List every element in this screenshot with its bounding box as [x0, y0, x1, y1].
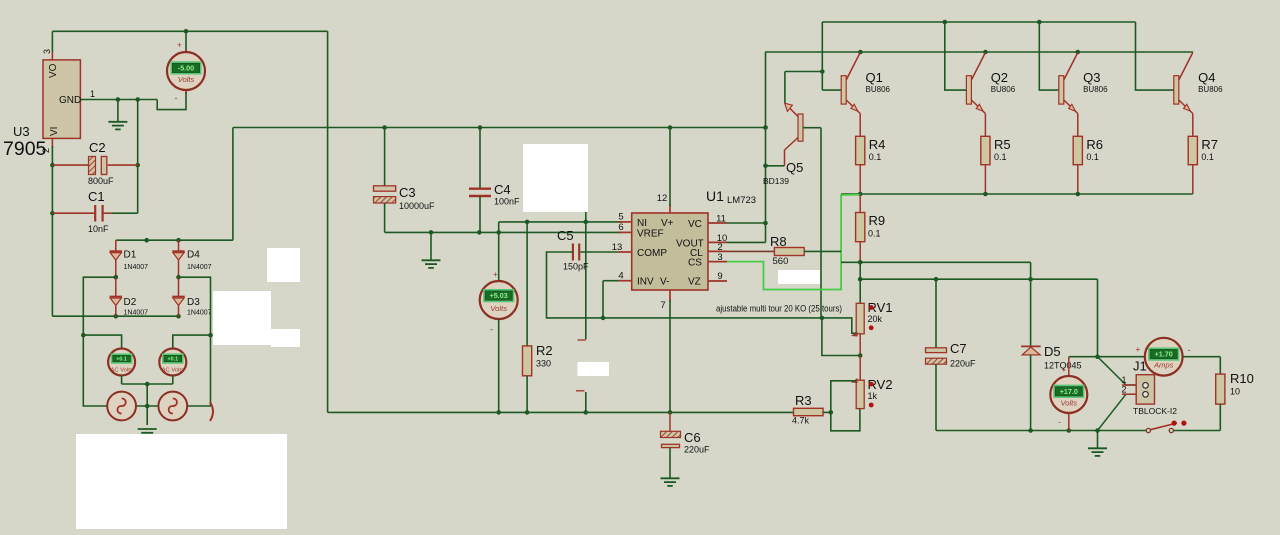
- svg-text:6: 6: [618, 222, 623, 233]
- svg-text:D4: D4: [187, 250, 200, 261]
- svg-text:+: +: [1136, 345, 1141, 354]
- svg-text:800uF: 800uF: [88, 176, 114, 186]
- svg-text:LM723: LM723: [727, 195, 756, 206]
- svg-text:0.1: 0.1: [994, 152, 1007, 162]
- svg-text:-5.00: -5.00: [178, 63, 194, 72]
- svg-text:2: 2: [1121, 385, 1126, 395]
- svg-text:R2: R2: [536, 343, 553, 358]
- svg-text:1N4007: 1N4007: [124, 310, 149, 317]
- svg-text:Q3: Q3: [1083, 70, 1100, 85]
- svg-text:+: +: [177, 41, 182, 50]
- svg-text:V-: V-: [660, 277, 669, 288]
- svg-text:150pF: 150pF: [563, 262, 589, 272]
- svg-text:AC Volts: AC Volts: [110, 368, 132, 374]
- svg-text:R3: R3: [795, 393, 812, 408]
- svg-text:D1: D1: [124, 250, 137, 261]
- svg-text:5: 5: [618, 212, 623, 223]
- svg-text:+17.0: +17.0: [1060, 387, 1078, 396]
- svg-text:TBLOCK-I2: TBLOCK-I2: [1133, 406, 1177, 416]
- svg-text:Amps: Amps: [1153, 361, 1174, 370]
- svg-text:VZ: VZ: [688, 277, 701, 288]
- svg-text:1: 1: [1121, 375, 1126, 385]
- svg-text:BU806: BU806: [1083, 85, 1108, 94]
- svg-text:Volts: Volts: [490, 304, 507, 313]
- svg-text:VC: VC: [688, 219, 702, 230]
- svg-text:-: -: [1058, 417, 1061, 427]
- svg-text:BD139: BD139: [763, 176, 789, 186]
- svg-text:R9: R9: [869, 213, 886, 228]
- svg-text:Q1: Q1: [866, 70, 883, 85]
- svg-text:0.1: 0.1: [868, 229, 881, 239]
- svg-text:220uF: 220uF: [950, 359, 976, 369]
- svg-text:+: +: [493, 270, 498, 279]
- svg-text:+: +: [1062, 365, 1067, 374]
- svg-text:D5: D5: [1044, 344, 1061, 359]
- svg-text:ajustable multi tour 20 KO (25: ajustable multi tour 20 KO (25 tours): [716, 304, 842, 314]
- svg-text:Q5: Q5: [786, 160, 803, 175]
- svg-text:100nF: 100nF: [494, 197, 520, 207]
- svg-text:D2: D2: [124, 297, 137, 308]
- svg-text:VREF: VREF: [637, 229, 664, 240]
- svg-text:D3: D3: [187, 297, 200, 308]
- svg-text:1N4007: 1N4007: [187, 264, 212, 271]
- svg-text:7905: 7905: [3, 138, 47, 160]
- svg-text:BU806: BU806: [991, 85, 1016, 94]
- svg-text:+0.1: +0.1: [167, 357, 178, 363]
- svg-text:4.7k: 4.7k: [792, 416, 810, 426]
- svg-text:10nF: 10nF: [88, 224, 109, 234]
- svg-text:COMP: COMP: [637, 248, 667, 259]
- svg-text:BU806: BU806: [866, 85, 891, 94]
- svg-text:-: -: [1188, 345, 1191, 355]
- svg-text:3: 3: [42, 49, 52, 54]
- svg-text:7: 7: [660, 300, 665, 311]
- svg-text:+5.03: +5.03: [490, 291, 508, 300]
- svg-text:R8: R8: [770, 234, 787, 249]
- svg-text:-: -: [175, 93, 178, 103]
- svg-text:220uF: 220uF: [684, 445, 710, 455]
- svg-text:R10: R10: [1230, 371, 1254, 386]
- svg-text:Q2: Q2: [991, 70, 1008, 85]
- svg-text:C7: C7: [950, 341, 967, 356]
- svg-text:20k: 20k: [868, 314, 883, 324]
- svg-text:R5: R5: [994, 137, 1011, 152]
- svg-text:CS: CS: [688, 258, 702, 269]
- svg-text:AC Volts: AC Volts: [162, 368, 184, 374]
- svg-text:0.1: 0.1: [1086, 152, 1099, 162]
- svg-text:R4: R4: [869, 137, 886, 152]
- svg-text:U3: U3: [13, 124, 30, 139]
- svg-text:R6: R6: [1086, 137, 1103, 152]
- svg-text:1N4007: 1N4007: [124, 264, 149, 271]
- svg-text:INV: INV: [637, 277, 654, 288]
- svg-text:VI: VI: [49, 127, 60, 136]
- svg-text:10: 10: [1230, 387, 1240, 397]
- svg-text:NI: NI: [637, 218, 647, 229]
- svg-text:BU806: BU806: [1198, 85, 1223, 94]
- svg-text:C1: C1: [88, 189, 105, 204]
- svg-text:1N4007: 1N4007: [187, 310, 212, 317]
- svg-text:C6: C6: [684, 430, 701, 445]
- svg-text:C4: C4: [494, 182, 511, 197]
- svg-text:0.1: 0.1: [869, 152, 882, 162]
- svg-text:C5: C5: [557, 228, 574, 243]
- svg-text:1: 1: [90, 89, 95, 99]
- svg-text:VO: VO: [48, 63, 59, 78]
- svg-text:C2: C2: [89, 140, 106, 155]
- svg-text:-: -: [490, 325, 493, 335]
- svg-text:C3: C3: [399, 185, 416, 200]
- svg-text:R7: R7: [1201, 137, 1218, 152]
- svg-text:12: 12: [657, 193, 668, 204]
- svg-text:1k: 1k: [868, 391, 878, 401]
- svg-text:330: 330: [536, 359, 551, 369]
- svg-text:GND: GND: [59, 95, 81, 106]
- svg-text:10000uF: 10000uF: [399, 201, 435, 211]
- svg-text:U1: U1: [706, 188, 724, 204]
- svg-text:560: 560: [773, 256, 789, 267]
- svg-text:Volts: Volts: [178, 75, 195, 84]
- svg-text:V+: V+: [661, 218, 674, 229]
- svg-text:Q4: Q4: [1198, 70, 1215, 85]
- svg-text:0.1: 0.1: [1201, 152, 1214, 162]
- svg-text:Volts: Volts: [1060, 398, 1077, 407]
- svg-text:+1.70: +1.70: [1155, 350, 1173, 359]
- svg-text:+0.1: +0.1: [116, 357, 127, 363]
